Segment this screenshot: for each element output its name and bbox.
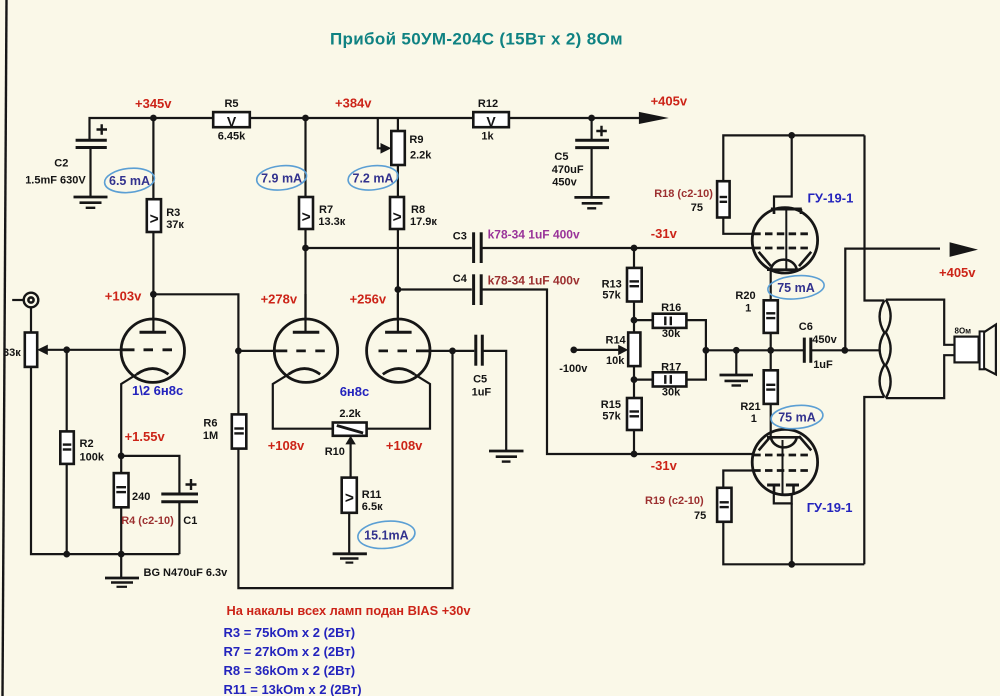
svg-text:R20: R20 xyxy=(735,290,755,302)
svg-text:R17: R17 xyxy=(661,362,681,374)
svg-text:R12: R12 xyxy=(478,98,498,110)
resistor R15 xyxy=(627,398,642,430)
resistor R18 xyxy=(717,181,730,217)
tube V3 triode 6n8c right xyxy=(367,319,430,382)
wire R3 column top xyxy=(152,118,154,199)
svg-text:57k: 57k xyxy=(602,411,621,423)
resistor bars R4 xyxy=(116,486,126,488)
current ellipse 7.9mA xyxy=(255,163,307,192)
svg-text:57k: 57k xyxy=(602,290,621,302)
junction dots xyxy=(150,115,157,122)
svg-text:k78-34 1uF 400v: k78-34 1uF 400v xyxy=(488,228,580,242)
wire R19 top to screen xyxy=(723,471,753,488)
svg-text:+256v: +256v xyxy=(350,291,387,306)
ground bottom left rail xyxy=(105,578,139,587)
33k pot wiper arrowhead xyxy=(37,345,48,355)
tube V1 triode 1/2 6n8c xyxy=(121,319,184,382)
wire C3 to upper output grid xyxy=(483,247,754,249)
svg-text:ГУ-19-1: ГУ-19-1 xyxy=(807,500,853,515)
resistor R4 xyxy=(114,473,129,507)
wire lower plate cap xyxy=(774,494,792,503)
wire secondary bottom lead xyxy=(886,355,954,398)
svg-text:R14: R14 xyxy=(606,334,627,346)
wire tube3 plate stem xyxy=(397,294,399,332)
svg-text:13.3к: 13.3к xyxy=(318,216,345,228)
R9 wiper arrowhead xyxy=(381,143,392,154)
svg-text:C1: C1 xyxy=(183,515,197,527)
wire R6 feedback box xyxy=(238,351,452,588)
wire cathode node to C1 xyxy=(121,456,179,494)
svg-text:100k: 100k xyxy=(80,451,105,463)
resistor R13 xyxy=(627,268,642,302)
resistor bars R18 xyxy=(720,196,728,198)
svg-text:ГУ-19-1: ГУ-19-1 xyxy=(808,191,854,206)
svg-text:R5: R5 xyxy=(224,98,238,110)
svg-text:+405v: +405v xyxy=(651,94,688,109)
wire R13 to R14 xyxy=(633,302,635,333)
tube V4 GU-19-1 upper xyxy=(752,208,817,273)
wire R3 to tube1 plate node xyxy=(152,232,154,318)
svg-text:8Ом: 8Ом xyxy=(955,327,972,336)
svg-text:6.5к: 6.5к xyxy=(362,501,383,513)
capacitor C6 xyxy=(804,338,811,363)
wire R8 to tube3 plate xyxy=(397,229,399,321)
current ellipse 75mA upper xyxy=(767,273,825,301)
current ellipse 7.2mA xyxy=(347,163,399,192)
resistor R17 xyxy=(653,372,687,386)
wire R17 left lead xyxy=(634,379,653,381)
svg-text:30k: 30k xyxy=(662,387,681,399)
resistor R16 xyxy=(653,314,687,328)
wire R20 bottom xyxy=(770,333,772,350)
ground center output row xyxy=(720,375,754,386)
arrow +405v right xyxy=(950,242,978,257)
svg-text:R7 = 27kOm x 2 (2Вт): R7 = 27kOm x 2 (2Вт) xyxy=(224,644,356,659)
svg-text:1M: 1M xyxy=(203,430,218,442)
svg-text:+108v: +108v xyxy=(268,438,305,453)
svg-text:470uF: 470uF xyxy=(552,164,584,176)
wire tube2 grid tap xyxy=(238,350,274,352)
wire R9 stub from rail xyxy=(397,118,399,131)
svg-text:6.5 mA: 6.5 mA xyxy=(109,174,150,188)
resistor bars R19 xyxy=(720,501,729,503)
potentiometer R10 xyxy=(333,423,367,436)
svg-text:R4 (c2-10): R4 (c2-10) xyxy=(121,515,174,527)
potentiometer R9 xyxy=(391,131,405,165)
svg-text:C5: C5 xyxy=(473,374,487,386)
svg-text:R21: R21 xyxy=(740,401,760,413)
capacitor C4 xyxy=(474,274,482,305)
ground below R11 xyxy=(333,554,367,563)
svg-text:C4: C4 xyxy=(453,273,468,285)
capacitor C5 second 1uF xyxy=(476,335,483,366)
svg-text:1: 1 xyxy=(751,413,757,425)
svg-text:R19 (c2-10): R19 (c2-10) xyxy=(645,495,704,507)
wire tube2 cathode down xyxy=(273,374,333,428)
wire tube3 grid to C5b node xyxy=(429,350,453,352)
resistor R2 xyxy=(60,431,74,464)
wire R18 bottom to screen xyxy=(723,218,753,234)
svg-text:+103v: +103v xyxy=(105,289,142,304)
wire C1 bottom xyxy=(178,502,180,554)
wire C4 to lower grid elbow xyxy=(483,290,754,455)
wire R2 top xyxy=(66,350,68,432)
svg-text:75: 75 xyxy=(691,202,703,214)
svg-text:R8: R8 xyxy=(411,204,425,216)
capacitor C1 xyxy=(161,479,198,502)
svg-text:240: 240 xyxy=(132,491,150,503)
capacitor C5 main xyxy=(575,118,609,197)
svg-text:R15: R15 xyxy=(601,399,621,411)
svg-text:R10: R10 xyxy=(325,446,345,458)
svg-text:BG N470uF 6.3v: BG N470uF 6.3v xyxy=(144,567,229,579)
wire R7 to tube2 plate xyxy=(304,229,306,321)
svg-text:37к: 37к xyxy=(166,219,184,231)
R14 wiper arrowhead xyxy=(618,345,628,355)
capacitor C2 xyxy=(76,124,107,196)
resistor R3 xyxy=(147,199,161,232)
wire R18 top elbow to top rail xyxy=(723,135,864,181)
svg-text:-31v: -31v xyxy=(651,226,678,241)
svg-text:-31v: -31v xyxy=(651,458,678,473)
wire tube3 cathode down xyxy=(367,374,430,428)
wire top rail right of C5 node xyxy=(592,117,650,119)
svg-text:1uF: 1uF xyxy=(813,359,833,371)
svg-text:1.5mF 630V: 1.5mF 630V xyxy=(25,175,86,187)
resistor bars R21 xyxy=(766,384,775,386)
svg-text:R3 = 75kOm x 2 (2Вт): R3 = 75kOm x 2 (2Вт) xyxy=(224,625,356,640)
wire pot wiper to tube1 grid xyxy=(46,349,122,351)
input jack connector xyxy=(24,293,39,308)
resistor bars R13 xyxy=(630,280,640,282)
svg-text:+278v: +278v xyxy=(261,291,298,306)
svg-text:C2: C2 xyxy=(54,158,68,170)
svg-text:+405v: +405v xyxy=(939,265,976,280)
wire tube1 plate stem xyxy=(152,294,154,332)
svg-text:R18 (c2-10): R18 (c2-10) xyxy=(654,188,713,200)
wire center output row xyxy=(706,349,803,351)
svg-text:R16: R16 xyxy=(661,302,681,314)
wire R7 column top xyxy=(304,118,306,197)
svg-text:450v: 450v xyxy=(812,334,837,346)
svg-text:V: V xyxy=(227,114,237,130)
resistor bars R2 xyxy=(63,443,72,445)
svg-text:R2: R2 xyxy=(80,438,94,450)
wire C3 row xyxy=(306,247,472,249)
resistor R21 xyxy=(764,370,778,404)
wire R21 top xyxy=(770,350,772,370)
capacitor C3 xyxy=(474,232,482,263)
wire ground stub center xyxy=(735,350,737,374)
svg-text:2.2k: 2.2k xyxy=(339,408,361,420)
svg-text:15.1mA: 15.1mA xyxy=(364,528,408,542)
wire ground stub left xyxy=(120,554,122,577)
tube V5 GU-19-1 lower xyxy=(752,429,817,494)
wire R10 wiper stem xyxy=(350,443,352,478)
resistor R12 xyxy=(473,112,509,127)
svg-text:R6: R6 xyxy=(203,418,217,430)
resistor R19 xyxy=(717,488,731,522)
svg-text:450v: 450v xyxy=(552,177,577,189)
svg-text:k78-34 1uF 400v: k78-34 1uF 400v xyxy=(488,274,580,288)
wire pot bottom to ground rail xyxy=(31,367,179,554)
svg-text:+384v: +384v xyxy=(335,96,372,111)
svg-text:1\2 6н8с: 1\2 6н8с xyxy=(132,383,183,398)
resistor bars R20 xyxy=(766,312,775,314)
svg-text:30k: 30k xyxy=(662,328,681,340)
svg-text:2.2k: 2.2k xyxy=(410,150,432,162)
wire R13 column top xyxy=(633,248,635,268)
wire R4 bottom xyxy=(120,507,122,554)
R10 diagonal xyxy=(337,426,363,434)
ground below C5 second xyxy=(489,451,524,462)
svg-text:>: > xyxy=(345,490,354,507)
resistor R6 xyxy=(232,414,247,448)
svg-text:На накалы всех ламп подан BIAS: На накалы всех ламп подан BIAS +30v xyxy=(227,603,472,618)
ground below C2 xyxy=(74,197,108,208)
wire C4 row xyxy=(398,288,472,290)
R10 wiper arrowhead xyxy=(345,436,355,445)
current ellipse 15.1mA xyxy=(357,519,416,551)
wire top rail xyxy=(90,118,592,140)
svg-text:6н8с: 6н8с xyxy=(340,384,370,399)
wire +103v node to R6 top xyxy=(153,294,238,414)
resistor R5 xyxy=(213,112,250,127)
svg-text:+1.55v: +1.55v xyxy=(125,429,166,444)
svg-text:+108v: +108v xyxy=(386,438,423,453)
wire R4 stub top xyxy=(120,456,122,473)
svg-text:R7: R7 xyxy=(319,204,333,216)
wire primary top lead xyxy=(865,135,885,300)
potentiometer R14 xyxy=(628,333,640,367)
svg-text:C6: C6 xyxy=(799,321,813,333)
wire R9 to R8 xyxy=(397,165,399,197)
svg-text:33к: 33к xyxy=(3,347,21,359)
resistor R7 xyxy=(299,197,313,229)
resistor bars R6 xyxy=(234,427,244,429)
wire R15 bottom xyxy=(633,430,635,454)
wire C5b node to C5b left plate xyxy=(453,350,475,352)
resistor bars R15 xyxy=(630,410,640,412)
svg-text:R3: R3 xyxy=(166,207,180,219)
potentiometer 33k input xyxy=(25,333,37,367)
svg-text:75: 75 xyxy=(694,510,706,522)
wire C6 right to transformer tap xyxy=(812,349,880,351)
svg-text:>: > xyxy=(393,209,402,226)
wire tube2 plate stem xyxy=(304,294,306,332)
transformer primary coil xyxy=(880,301,885,398)
svg-text:>: > xyxy=(302,209,311,226)
wire secondary top lead xyxy=(886,300,954,345)
transformer secondary coil xyxy=(886,300,891,398)
svg-text:6.45k: 6.45k xyxy=(218,131,246,143)
wire R16 left lead xyxy=(634,319,653,321)
svg-text:C5: C5 xyxy=(554,151,568,163)
svg-text:1k: 1k xyxy=(481,131,494,143)
tube V2 triode 6n8c left xyxy=(274,319,337,382)
wire input jack tick xyxy=(12,299,23,301)
ground below C5 main xyxy=(574,197,609,208)
svg-text:75 mA: 75 mA xyxy=(778,411,816,425)
svg-text:C3: C3 xyxy=(453,231,467,243)
resistor R8 xyxy=(390,197,404,229)
speaker horn xyxy=(984,325,996,375)
resistor bars R16 xyxy=(664,317,666,326)
wire -100v lead xyxy=(574,349,622,351)
speaker magnet bar xyxy=(980,331,985,369)
svg-text:1: 1 xyxy=(745,303,751,315)
svg-text:R9: R9 xyxy=(409,134,423,146)
wire R19 bottom to cathode rail xyxy=(723,522,864,565)
wire tube1 cathode down xyxy=(121,374,137,456)
left scan border line xyxy=(3,0,7,696)
svg-text:75 mA: 75 mA xyxy=(777,281,815,295)
resistor bars R17 xyxy=(664,375,666,384)
resistor R11 xyxy=(342,478,357,513)
svg-text:7.9 mA: 7.9 mA xyxy=(261,171,302,185)
wire R2 bottom xyxy=(66,464,68,554)
wire R16 right lead xyxy=(686,320,706,350)
wire R20 top stem xyxy=(770,270,772,301)
svg-text:R8 = 36kOm x 2 (2Вт): R8 = 36kOm x 2 (2Вт) xyxy=(224,663,356,678)
resistor R20 xyxy=(764,300,778,333)
wire lower plate stem down xyxy=(791,503,793,564)
svg-text:R11: R11 xyxy=(362,489,382,501)
svg-text:R11 = 13kOm x 2 (2Вт): R11 = 13kOm x 2 (2Вт) xyxy=(224,682,362,696)
wire R21 bottom to lower cathode xyxy=(770,404,772,437)
svg-text:-100v: -100v xyxy=(559,363,588,375)
svg-text:1uF: 1uF xyxy=(472,386,492,398)
wire R14 to R15 xyxy=(633,366,635,398)
wire R9 wiper from rail xyxy=(378,118,389,148)
current ellipse 75mA lower xyxy=(770,403,824,430)
svg-text:10k: 10k xyxy=(606,355,625,367)
svg-text:17.9к: 17.9к xyxy=(410,216,437,228)
wire +405v right riser xyxy=(845,249,940,351)
svg-text:>: > xyxy=(150,211,159,228)
wire R17 right lead xyxy=(686,350,706,379)
wire C5b right to ground xyxy=(483,351,506,451)
svg-text:Прибой 50УМ-204С (15Вт х 2) 8: Прибой 50УМ-204С (15Вт х 2) 8Ом xyxy=(330,30,623,49)
wire R11 to ground xyxy=(348,513,350,553)
svg-text:7.2 mA: 7.2 mA xyxy=(353,171,394,185)
current ellipse 6.5mA xyxy=(103,166,155,195)
speaker box xyxy=(955,337,979,363)
svg-text:V: V xyxy=(486,114,496,130)
svg-text:+345v: +345v xyxy=(135,96,172,111)
wire input jack to pot xyxy=(30,308,32,333)
arrow +405v top xyxy=(639,112,669,124)
wire upper plate cap xyxy=(774,135,792,213)
wire primary bottom lead xyxy=(864,397,884,564)
